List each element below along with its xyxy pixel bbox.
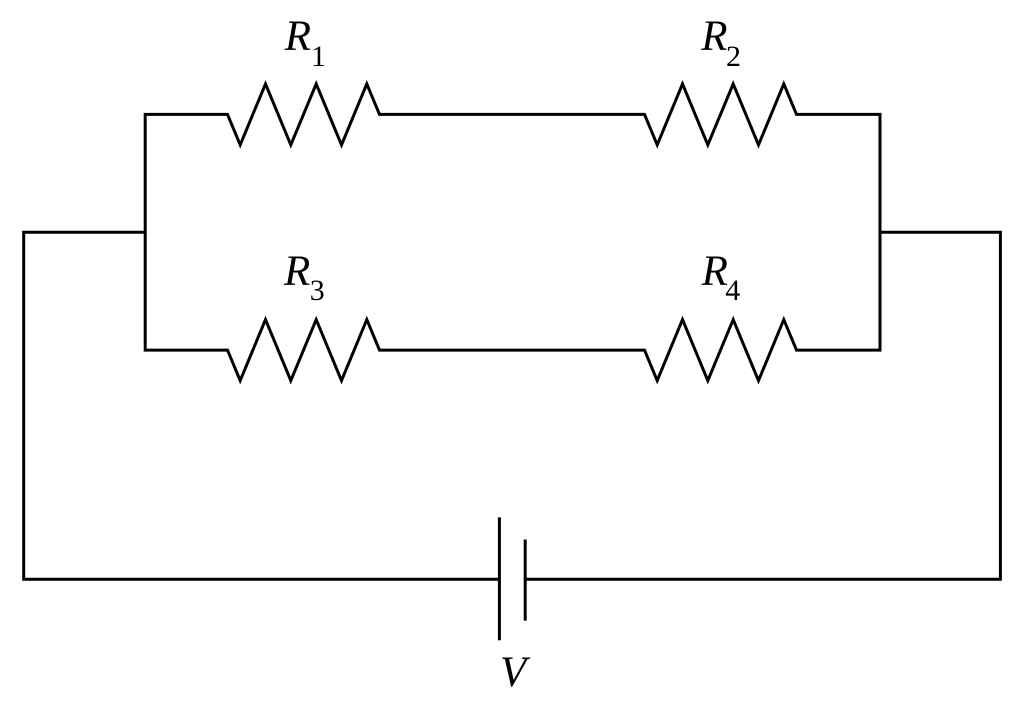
svg-text:R: R [700,13,727,60]
svg-text:4: 4 [725,274,740,307]
svg-text:1: 1 [311,40,326,73]
svg-text:R: R [284,13,311,60]
svg-text:R: R [701,248,728,295]
svg-text:2: 2 [726,40,741,73]
svg-text:R: R [283,248,310,295]
svg-text:3: 3 [310,274,325,307]
